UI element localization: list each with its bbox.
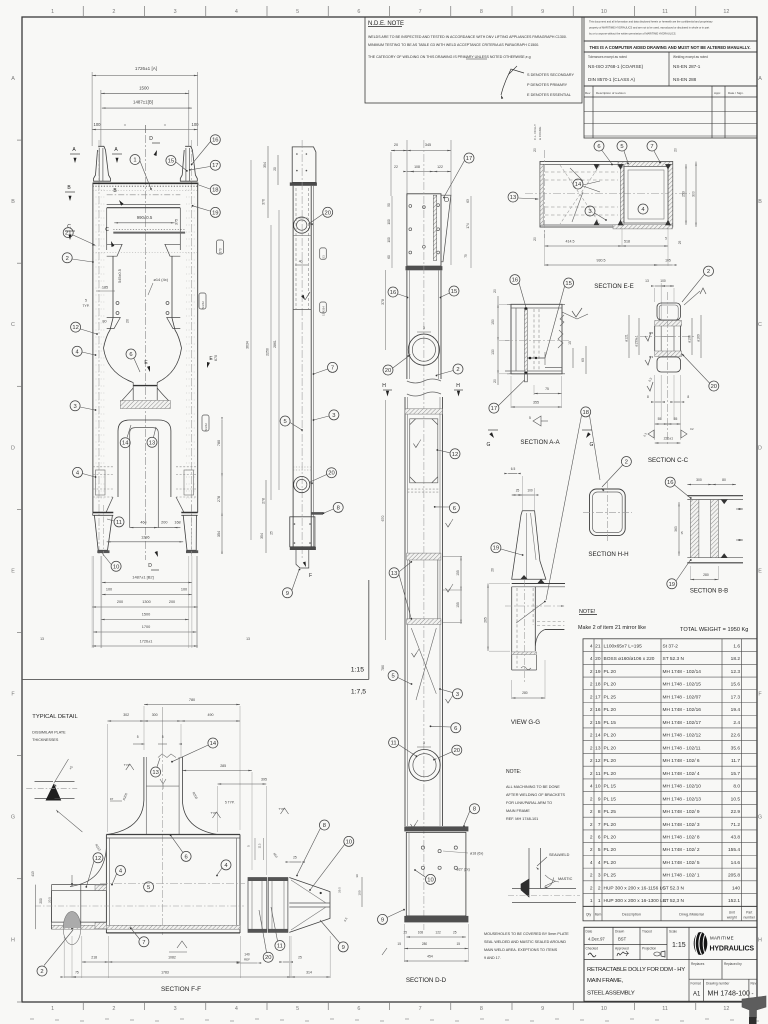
NDE note box — [365, 17, 582, 103]
balloon 17 — [489, 403, 499, 413]
svg-text:MINIMUM TESTING TO BE AS TABLE: MINIMUM TESTING TO BE AS TABLE G3 WITH W… — [368, 43, 539, 47]
G-G fin weld triangles — [521, 576, 527, 580]
balloon 12 — [71, 322, 81, 332]
svg-text:20: 20 — [454, 748, 460, 754]
svg-text:STEEL ASSEMBLY: STEEL ASSEMBLY — [587, 991, 635, 997]
svg-text:200: 200 — [39, 898, 43, 904]
svg-text:Welding except as noted: Welding except as noted — [673, 55, 708, 59]
B-B tube walls — [690, 500, 699, 558]
svg-text:D: D — [11, 445, 15, 451]
svg-text:MH 1748 - 102/15: MH 1748 - 102/15 — [663, 682, 702, 688]
svg-text:15.6: 15.6 — [731, 682, 741, 688]
E-E right wall — [668, 164, 673, 225]
svg-text:D: D — [758, 445, 762, 451]
svg-text:2: 2 — [590, 771, 593, 777]
main view top flange — [93, 182, 199, 184]
svg-text:E: E — [758, 568, 762, 574]
G-G right stub — [545, 629, 565, 631]
svg-text:WELDS ARE TO BE INSPECTED AND: WELDS ARE TO BE INSPECTED AND TESTED IN … — [368, 35, 567, 39]
column diagonal leaders — [411, 628, 436, 694]
corner fold mark — [742, 996, 766, 1018]
svg-text:G: G — [590, 442, 594, 448]
svg-text:19: 19 — [212, 210, 218, 216]
svg-text:E DENOTES ESSENTIAL: E DENOTES ESSENTIAL — [527, 93, 571, 97]
svg-text:20: 20 — [394, 143, 398, 147]
svg-text:BOSS ø160/ø106 x 220: BOSS ø160/ø106 x 220 — [604, 656, 655, 662]
svg-text:L100x65x7 L=195: L100x65x7 L=195 — [604, 643, 643, 649]
svg-text:670: 670 — [381, 516, 385, 522]
G-G base flange — [512, 583, 565, 585]
svg-text:5: 5 — [137, 735, 139, 739]
svg-text:MH 1748 - 102/ 1: MH 1748 - 102/ 1 — [663, 873, 700, 879]
balloon 10 — [426, 874, 436, 884]
svg-text:8: 8 — [337, 505, 340, 511]
svg-text:25: 25 — [453, 931, 457, 935]
svg-text:25: 25 — [298, 956, 302, 960]
svg-text:THE CATEGORY OF WELDING ON THI: THE CATEGORY OF WELDING ON THIS DRAWING … — [368, 55, 531, 59]
item 12 internal box — [410, 419, 438, 483]
svg-text:285: 285 — [220, 764, 226, 768]
svg-text:Make 2 of item 21 mirror: Make 2 of item 21 mirror like — [578, 625, 646, 631]
F-F detail ellipse — [63, 911, 81, 928]
svg-text:6: 6 — [454, 726, 457, 732]
svg-text:G: G — [11, 815, 15, 821]
maritime hydraulics logo — [694, 932, 708, 955]
svg-text:1500: 1500 — [142, 613, 150, 617]
A-A weld zigzag — [558, 330, 563, 348]
svg-text:2: 2 — [590, 694, 593, 700]
svg-text:670: 670 — [214, 355, 218, 361]
svg-text:6: 6 — [357, 9, 360, 15]
svg-text:2: 2 — [625, 460, 628, 466]
svg-text:5: 5 — [296, 1006, 299, 1012]
svg-text:TYP.: TYP. — [83, 304, 90, 308]
item 8 plate — [404, 826, 468, 831]
C-C boss body — [654, 326, 656, 351]
F-F stub centerline — [162, 750, 164, 935]
svg-text:4.Dec.97: 4.Dec.97 — [588, 937, 605, 942]
svg-text:MH 1748 - 102/ 3: MH 1748 - 102/ 3 — [663, 822, 700, 828]
F-F arm end web — [80, 885, 82, 929]
svg-text:9: 9 — [381, 917, 384, 923]
G-G centerline horizontal — [505, 605, 564, 607]
svg-text:278: 278 — [217, 496, 221, 502]
svg-text:5: 5 — [529, 416, 531, 420]
A-A left wall plate — [525, 308, 528, 374]
svg-text:4: 4 — [590, 643, 593, 649]
section H-H tube — [590, 489, 626, 536]
svg-text:25: 25 — [404, 931, 408, 935]
F-F left arm plates — [52, 884, 107, 886]
svg-text:20: 20 — [493, 289, 497, 293]
svg-text:2: 2 — [590, 847, 593, 853]
svg-text:PL 15: PL 15 — [604, 720, 617, 726]
G-G hatch band — [512, 652, 537, 655]
svg-text:10: 10 — [113, 564, 119, 570]
svg-text:2: 2 — [590, 733, 593, 739]
svg-text:S DENOTES SECONDARY: S DENOTES SECONDARY — [527, 73, 574, 77]
svg-text:20: 20 — [265, 955, 271, 961]
svg-text:MH 1748 - 102/10: MH 1748 - 102/10 — [663, 784, 702, 790]
phi14 holes — [116, 302, 119, 305]
balloon 12 — [93, 853, 103, 863]
svg-text:A: A — [758, 76, 762, 82]
svg-text:40: 40 — [299, 260, 303, 264]
svg-text:Checked: Checked — [586, 947, 599, 951]
svg-text:19: 19 — [493, 546, 499, 552]
svg-text:MH 1748-100: MH 1748-100 — [708, 991, 751, 998]
svg-text:100: 100 — [358, 890, 362, 895]
svg-text:22.6: 22.6 — [731, 733, 741, 739]
svg-text:15: 15 — [168, 159, 174, 165]
svg-text:Rev: Rev — [585, 91, 591, 95]
svg-text:12: 12 — [72, 325, 78, 331]
svg-text:1726±1 [A]: 1726±1 [A] — [135, 66, 157, 71]
left lifting foot — [94, 146, 111, 181]
svg-text:PL 20: PL 20 — [604, 733, 617, 739]
svg-text:SEAL WELDED AND MASTIC SEALED: SEAL WELDED AND MASTIC SEALED AROUND — [484, 940, 566, 944]
svg-text:PL 15: PL 15 — [604, 784, 617, 790]
svg-text:2: 2 — [66, 256, 69, 262]
svg-text:Traced: Traced — [642, 930, 652, 934]
lower hatch band — [120, 401, 170, 409]
viewport divider — [22, 678, 369, 680]
svg-text:PL 20: PL 20 — [604, 835, 617, 841]
upper cavity dotted joint line — [93, 252, 198, 254]
svg-text:6.3: 6.3 — [649, 355, 654, 359]
sealweld plates — [528, 848, 530, 889]
svg-text:MH 1748 - 102/11: MH 1748 - 102/11 — [663, 745, 701, 751]
svg-text:1487±1[B]: 1487±1[B] — [133, 100, 153, 105]
svg-text:13: 13 — [40, 637, 44, 641]
svg-text:55: 55 — [674, 417, 678, 421]
balloon 15 — [166, 156, 176, 166]
balloon 13 — [508, 192, 518, 202]
svg-text:MARITIME: MARITIME — [710, 936, 734, 941]
svg-text:C: C — [67, 224, 71, 230]
svg-text:18: 18 — [582, 410, 588, 416]
balloon 11 — [275, 941, 285, 951]
svg-text:DIN 8570-1 (CLASS A): DIN 8570-1 (CLASS A) — [588, 77, 635, 82]
svg-text:MAIN FRAME: MAIN FRAME — [506, 809, 530, 813]
svg-text:395: 395 — [261, 778, 267, 782]
svg-text:354: 354 — [263, 162, 267, 168]
svg-text:HYDRAULICS: HYDRAULICS — [710, 946, 755, 953]
B-B weld triangles — [721, 500, 727, 504]
balloon 14 — [573, 179, 583, 189]
svg-text:C: C — [11, 322, 15, 328]
svg-text:MAIN WELD AREA. EXEPTIONS TO: MAIN WELD AREA. EXEPTIONS TO ITEMS — [484, 948, 558, 952]
svg-text:152.1: 152.1 — [728, 898, 740, 904]
svg-text:168: 168 — [174, 521, 180, 525]
svg-text:3: 3 — [174, 1006, 177, 1012]
svg-text:SECTION E-E: SECTION E-E — [594, 283, 634, 290]
svg-text:by or to anyone without the wr: by or to anyone without the written perm… — [589, 32, 676, 36]
svg-text:Drwg./Material: Drwg./Material — [679, 912, 704, 916]
F-F body — [106, 834, 240, 836]
proprietary text box — [584, 17, 757, 41]
svg-text:3: 3 — [456, 692, 459, 698]
svg-text:60: 60 — [387, 255, 391, 259]
B-B top flange — [687, 495, 743, 497]
svg-text:Replaces: Replaces — [691, 962, 705, 966]
leg centerlines — [102, 505, 104, 556]
svg-text:7: 7 — [142, 940, 145, 946]
side view tail — [296, 550, 309, 568]
C-C flags — [648, 430, 654, 438]
svg-text:NOTE:: NOTE: — [506, 769, 521, 775]
svg-text:130: 130 — [491, 349, 495, 355]
svg-text:14.6: 14.6 — [731, 860, 741, 866]
balloon 13 — [147, 437, 157, 447]
svg-text:D: D — [149, 136, 153, 142]
svg-text:A: A — [11, 76, 15, 82]
svg-text:1: 1 — [133, 158, 136, 164]
F-F bottom extension lines — [63, 936, 65, 978]
lower mousehole — [409, 750, 440, 781]
svg-text:18.2: 18.2 — [731, 656, 741, 662]
svg-text:1:15: 1:15 — [351, 667, 364, 674]
svg-text:11: 11 — [596, 771, 601, 777]
svg-text:140: 140 — [732, 885, 740, 891]
svg-text:6.5: 6.5 — [511, 467, 516, 471]
section E-E outline — [540, 162, 673, 228]
svg-text:19: 19 — [669, 582, 675, 588]
svg-text:314: 314 — [306, 971, 312, 975]
svg-text:20: 20 — [674, 148, 678, 152]
svg-text:174: 174 — [466, 223, 470, 229]
svg-text:1:7,5: 1:7,5 — [351, 689, 366, 696]
svg-text:PL 20: PL 20 — [604, 682, 617, 688]
balloon 17 — [464, 153, 474, 163]
svg-text:3: 3 — [598, 873, 601, 879]
balloon 20 — [452, 745, 462, 755]
svg-text:100: 100 — [527, 489, 533, 493]
svg-text:80: 80 — [722, 478, 726, 482]
svg-text:THIS IS A COMPUTER AIDED DRAWI: THIS IS A COMPUTER AIDED DRAWING AND MUS… — [590, 45, 751, 50]
svg-text:1: 1 — [590, 898, 593, 904]
svg-text:13: 13 — [595, 745, 601, 751]
svg-text:376: 376 — [262, 199, 266, 205]
svg-text:35.6: 35.6 — [731, 745, 741, 751]
svg-text:6: 6 — [598, 835, 601, 841]
F-F stub — [143, 757, 145, 800]
balloon 16 — [665, 477, 675, 487]
wall slot dashes mid — [93, 466, 113, 468]
svg-text:weight: weight — [727, 915, 737, 919]
svg-text:280: 280 — [422, 942, 428, 946]
balloon 7 — [328, 362, 338, 372]
mid hatch band 1 — [405, 409, 443, 414]
svg-text:E: E — [11, 568, 15, 574]
svg-text:16: 16 — [595, 707, 601, 713]
svg-text:11: 11 — [116, 520, 122, 526]
svg-text:Rev: Rev — [751, 982, 757, 986]
F-F right bracket channels — [248, 878, 267, 933]
svg-text:Qty: Qty — [586, 912, 592, 916]
svg-text:14: 14 — [595, 733, 601, 739]
svg-text:4: 4 — [235, 1006, 238, 1012]
svg-text:MH 1748 - 102/ 9: MH 1748 - 102/ 9 — [663, 809, 700, 815]
E-E leader lines cluster — [570, 168, 583, 181]
svg-text:PL 25: PL 25 — [604, 694, 617, 700]
svg-text:13: 13 — [152, 770, 158, 776]
side view top foot — [292, 147, 316, 183]
balloon 1 — [130, 155, 140, 165]
svg-text:A1: A1 — [693, 992, 701, 998]
balloon 5 — [144, 882, 154, 892]
svg-text:200: 200 — [169, 600, 175, 604]
svg-text:545±0.5: 545±0.5 — [118, 269, 122, 283]
svg-text:9: 9 — [541, 1006, 544, 1012]
svg-text:205.8: 205.8 — [728, 873, 740, 879]
svg-text:2: 2 — [590, 796, 593, 802]
svg-text:4: 4 — [590, 784, 593, 790]
E-E weld dots — [594, 164, 599, 169]
svg-text:2: 2 — [112, 9, 115, 15]
svg-text:75: 75 — [545, 387, 549, 391]
svg-text:20: 20 — [273, 167, 277, 171]
svg-text:15: 15 — [397, 942, 401, 946]
svg-text:ALL MACHINING TO BE DONE: ALL MACHINING TO BE DONE — [506, 785, 560, 789]
balloon 5 — [280, 416, 290, 426]
svg-text:15: 15 — [451, 289, 457, 295]
svg-text:1300: 1300 — [142, 600, 150, 604]
side view hole ticks — [296, 217, 308, 219]
svg-text:60: 60 — [581, 358, 585, 362]
side view column — [292, 186, 294, 550]
svg-text:100: 100 — [181, 588, 187, 592]
svg-text:20: 20 — [126, 319, 130, 323]
svg-text:8: 8 — [473, 807, 476, 813]
svg-text:414.5: 414.5 — [566, 240, 575, 244]
balloon 19 — [210, 207, 220, 217]
side view lower dotted joints — [293, 466, 311, 468]
svg-text:14: 14 — [122, 441, 129, 447]
svg-text:1: 1 — [51, 1006, 54, 1012]
svg-text:SECTION H-H: SECTION H-H — [588, 551, 628, 558]
svg-text:5: 5 — [391, 674, 394, 680]
svg-text:25: 25 — [293, 856, 297, 860]
svg-text:300: 300 — [696, 478, 702, 482]
side view hole bottom — [294, 477, 310, 493]
svg-text:2: 2 — [590, 809, 593, 815]
svg-text:NOTE!: NOTE! — [579, 609, 596, 615]
svg-text:20: 20 — [490, 568, 494, 572]
svg-text:13: 13 — [246, 637, 250, 641]
replaces cells — [688, 960, 690, 1002]
svg-text:ø27 (2x): ø27 (2x) — [457, 868, 470, 872]
svg-text:ø18 (6x): ø18 (6x) — [470, 852, 483, 856]
svg-text:MH 1748 - 102/ 5: MH 1748 - 102/ 5 — [663, 860, 700, 866]
svg-text:S3/42: S3/42 — [201, 301, 205, 309]
svg-text:10: 10 — [595, 784, 601, 790]
balloon 20 — [263, 952, 273, 962]
svg-text:22: 22 — [394, 165, 398, 169]
balloon 2 — [453, 364, 463, 374]
svg-text:D: D — [148, 563, 152, 569]
svg-text:number: number — [744, 915, 756, 919]
svg-text:This document and all informat: This document and all information and da… — [589, 20, 713, 24]
svg-text:1: 1 — [51, 9, 54, 15]
balloon 7 — [647, 141, 657, 151]
svg-text:780: 780 — [217, 440, 221, 446]
A-A mid T detail — [527, 357, 545, 359]
revision table — [584, 86, 757, 138]
svg-text:Description: Description — [622, 912, 641, 916]
balloon 9 — [378, 914, 388, 924]
svg-text:13: 13 — [149, 440, 155, 446]
svg-text:10.5: 10.5 — [731, 796, 741, 802]
balloon 6 — [126, 349, 136, 359]
E section marks — [147, 366, 150, 372]
svg-text:19: 19 — [595, 669, 601, 675]
svg-text:18: 18 — [595, 682, 601, 688]
svg-text:9: 9 — [598, 796, 601, 802]
balloon 3 — [70, 401, 80, 411]
svg-text:2: 2 — [590, 835, 593, 841]
section A-A outline — [511, 304, 562, 374]
svg-text:55: 55 — [658, 417, 662, 421]
balloon 14 — [208, 738, 218, 748]
svg-text:354: 354 — [217, 531, 221, 537]
svg-text:Tolerances except as noted: Tolerances except as noted — [588, 55, 627, 59]
lower window inner — [130, 428, 159, 528]
svg-text:N.D.E. NOTE: N.D.E. NOTE — [368, 21, 404, 27]
cavity step gussets — [107, 318, 121, 329]
side view hidden lines upper — [295, 188, 297, 309]
svg-text:363: 363 — [674, 526, 678, 532]
svg-text:1286: 1286 — [141, 536, 149, 540]
balloon 15 — [564, 278, 574, 288]
E-E centerlines — [525, 193, 690, 195]
svg-text:20: 20 — [328, 471, 334, 477]
main view centerlines — [144, 135, 146, 560]
svg-text:155: 155 — [456, 602, 460, 608]
A-A centerline — [505, 340, 570, 342]
svg-text:354: 354 — [260, 533, 264, 539]
svg-text:12: 12 — [452, 452, 458, 458]
svg-text:100: 100 — [94, 122, 102, 127]
svg-text:ø159±1: ø159±1 — [635, 335, 639, 346]
svg-text:11: 11 — [277, 944, 283, 950]
C-C top tube end — [657, 303, 681, 320]
svg-text:12: 12 — [95, 856, 101, 862]
svg-text:VIEW G-G: VIEW G-G — [511, 719, 540, 726]
svg-text:12: 12 — [723, 9, 729, 15]
C-C weld V — [700, 288, 706, 294]
svg-text:5: 5 — [665, 237, 667, 241]
svg-text:20: 20 — [595, 656, 601, 662]
A-A bottom tab — [525, 374, 528, 382]
C-C centerlines — [667, 292, 669, 445]
svg-text:5: 5 — [620, 144, 623, 150]
svg-text:185: 185 — [102, 286, 108, 290]
svg-text:780: 780 — [381, 665, 385, 671]
main view outer walls — [92, 183, 94, 513]
svg-text:PL 20: PL 20 — [604, 707, 617, 713]
svg-text:370: 370 — [219, 248, 223, 254]
column centerline — [423, 140, 425, 930]
svg-text:2.4: 2.4 — [733, 720, 740, 726]
svg-text:200: 200 — [117, 600, 123, 604]
balloon 6 — [449, 503, 459, 513]
svg-text:7: 7 — [598, 822, 601, 828]
svg-text:C.L. DOLLY: C.L. DOLLY — [533, 124, 537, 140]
svg-text:PL 20: PL 20 — [604, 669, 617, 675]
corner gussets below beam — [107, 244, 122, 256]
balloon 4 — [221, 860, 231, 870]
